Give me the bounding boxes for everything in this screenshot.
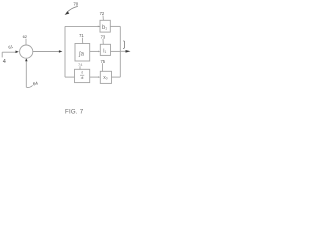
- leader for label 70: [67, 6, 78, 12]
- bottom branch wire left: [65, 76, 75, 78]
- svg-text:4: 4: [3, 59, 6, 65]
- arrowhead into circle: [16, 51, 19, 54]
- svg-text:71: 71: [79, 33, 84, 38]
- svg-text:∫a: ∫a: [78, 51, 85, 58]
- block b1: [100, 20, 110, 32]
- svg-text:64: 64: [33, 81, 39, 87]
- input stub: [1, 52, 3, 57]
- summing junction circle: [20, 45, 33, 58]
- merge bus: [119, 26, 121, 77]
- leader for label 73: [102, 39, 104, 44]
- svg-text:75: 75: [101, 59, 106, 64]
- svg-text:b1: b1: [102, 25, 107, 31]
- wire differentiator to x0: [90, 76, 99, 78]
- svg-text:73: 73: [101, 35, 106, 40]
- block I1: [100, 44, 110, 55]
- wire circle to split node: [33, 51, 59, 53]
- input wire: [2, 51, 16, 53]
- block x0: [100, 71, 111, 83]
- wire integrator to I1: [90, 50, 99, 52]
- leader hook for label 64: [26, 85, 32, 87]
- svg-text:62: 62: [23, 34, 28, 39]
- svg-text:70: 70: [73, 2, 78, 7]
- wire b1 to merge bus: [110, 25, 120, 27]
- output arrowhead: [126, 50, 131, 53]
- arrowhead on 70 leader: [65, 11, 70, 15]
- svg-text:I1: I1: [103, 48, 106, 54]
- integrator block: [75, 44, 90, 62]
- svg-text:x0: x0: [103, 75, 108, 81]
- arrowhead into split node: [59, 50, 63, 53]
- arrowhead into b1: [98, 26, 100, 28]
- leader for label 75: [101, 63, 103, 71]
- wire x0 to merge bus: [112, 76, 121, 78]
- leader for label 71: [81, 38, 84, 44]
- differentiator block: [75, 69, 90, 82]
- leader for label 72: [102, 16, 104, 21]
- svg-text:74: 74: [78, 62, 83, 67]
- output label: [123, 41, 125, 48]
- feedback wire below circle: [25, 59, 27, 87]
- output wire: [120, 50, 126, 52]
- svg-text:72: 72: [100, 11, 105, 16]
- svg-text:FIG. 7: FIG. 7: [65, 108, 84, 115]
- arrowhead up into circle bottom: [25, 58, 28, 61]
- leader for label 74: [79, 66, 81, 69]
- wire I1 to merge bus: [111, 50, 121, 52]
- top branch wire: [65, 25, 100, 27]
- arrowhead into I1: [98, 51, 100, 53]
- svg-text:61: 61: [8, 44, 14, 50]
- leader for label 62: [25, 39, 27, 45]
- arrowhead into x0: [98, 76, 100, 78]
- split bus: [64, 26, 66, 77]
- svg-text:d: d: [81, 71, 83, 75]
- svg-text:dt: dt: [81, 76, 84, 80]
